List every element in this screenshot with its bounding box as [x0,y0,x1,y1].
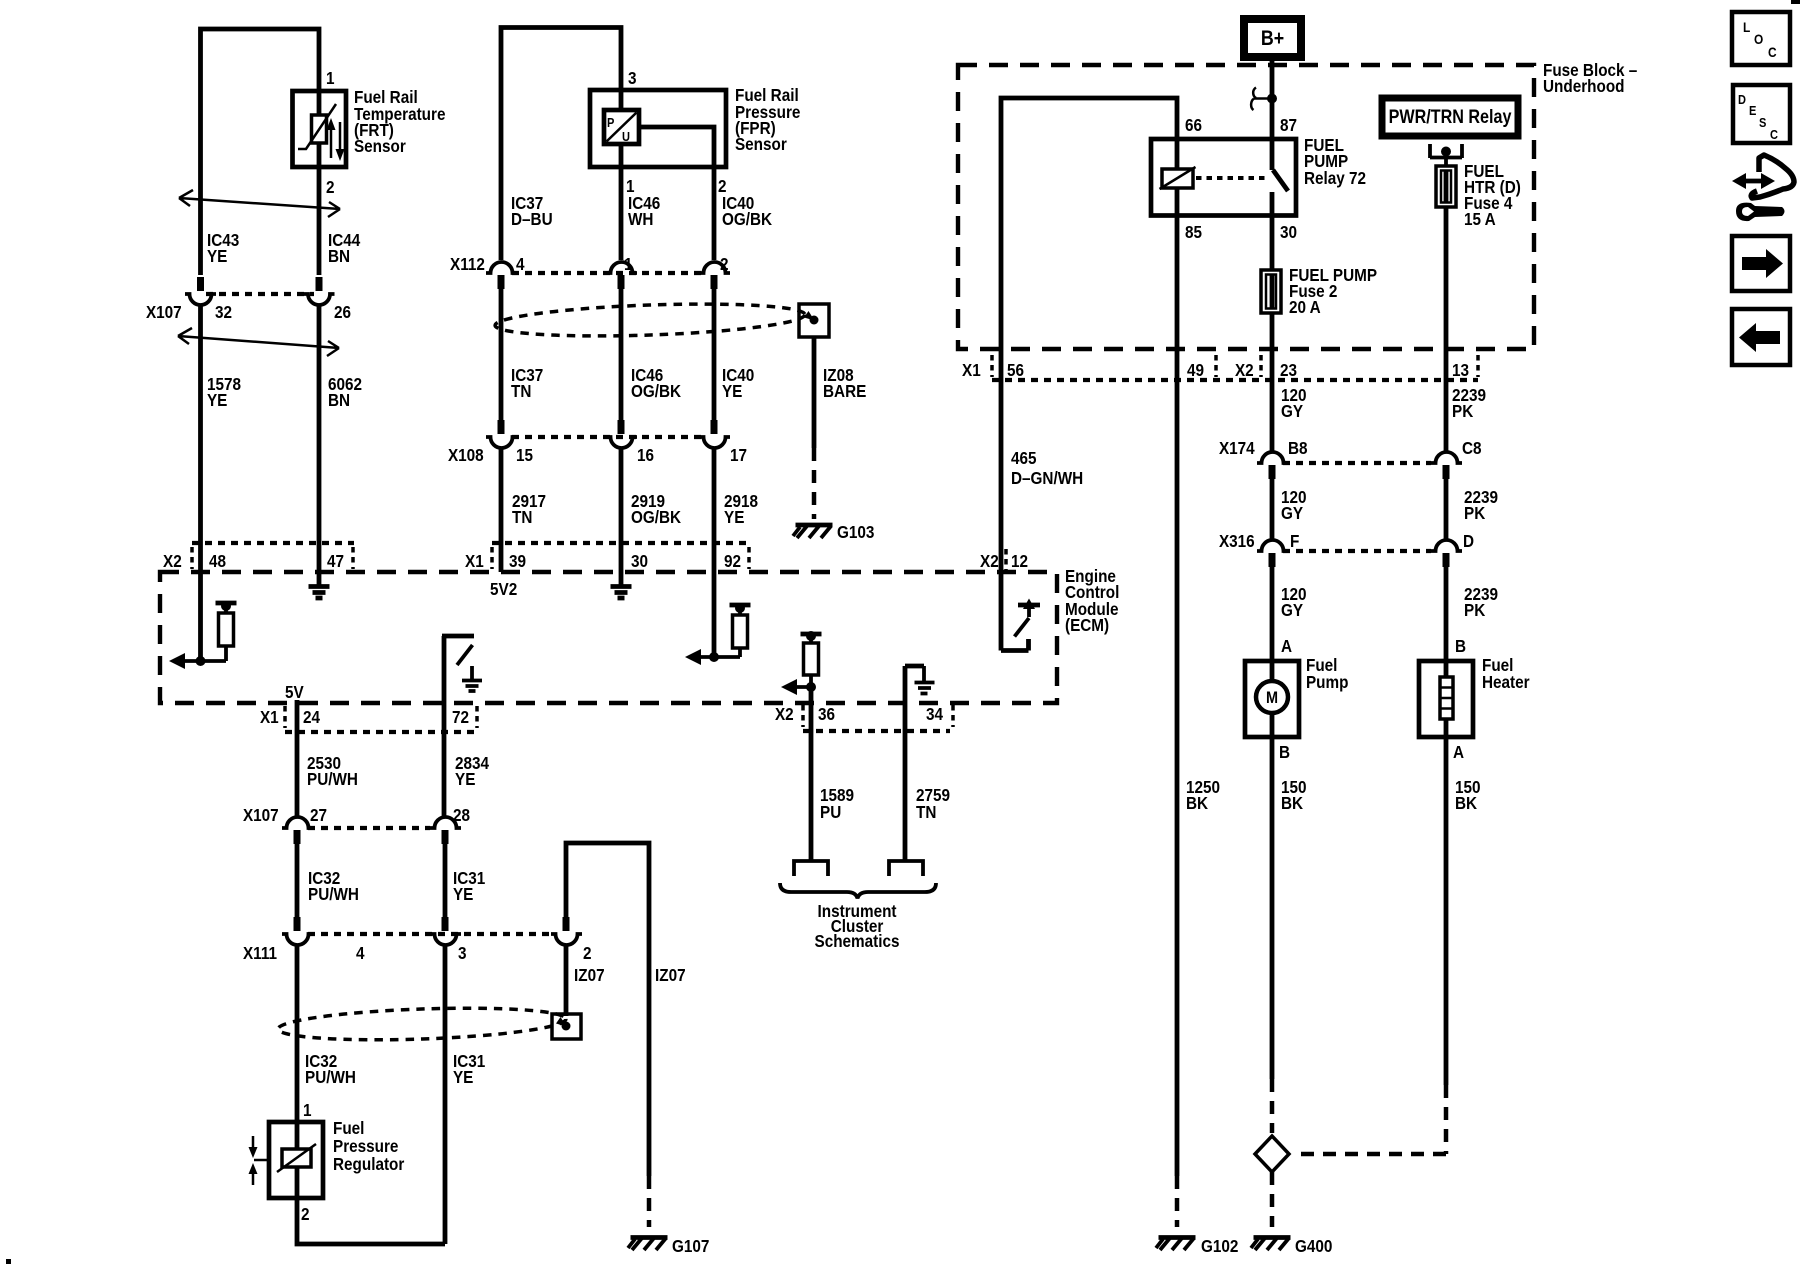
X108 connector dashed row [512,435,703,439]
twisted pair crossing arrows lower [178,328,339,356]
connector X108 pin 17 [711,420,718,434]
svg-text:34: 34 [926,704,944,724]
svg-text:D–BU: D–BU [511,209,553,229]
wire IC40 YE [712,289,717,420]
svg-text:X107: X107 [146,302,182,322]
svg-text:A: A [1453,742,1464,762]
svg-text:D: D [1463,531,1474,551]
svg-text:PK: PK [1452,401,1473,421]
splice diamond [1255,1136,1289,1172]
FRT pin 2 wire [317,143,322,275]
wire 1250 BK dashed to G102 [1175,1176,1180,1227]
svg-text:OG/BK: OG/BK [631,381,681,401]
svg-text:C8: C8 [1462,438,1482,458]
svg-text:B+: B+ [1261,27,1284,51]
wire 24 at ECM border [295,700,300,709]
FPR pin 1 wire [619,144,624,260]
ECM pull-up resistor circuit for wire 48 [216,601,237,606]
connector X108 pin 15 [498,420,505,434]
wire 92 inside ECM [712,572,717,657]
ECM pull-up resistor circuit for wire 36 [801,632,822,637]
svg-text:465: 465 [1011,448,1037,468]
svg-text:30: 30 [631,551,648,571]
X107 connector dashed row [206,292,314,296]
svg-text:Schematics: Schematics [815,931,900,951]
ECM dashed box [160,572,1057,703]
wire 2239 PK second [1444,479,1449,540]
wire from X111 pin 2 to splice [564,945,569,1016]
wire 120 GY third [1270,567,1275,661]
X316 connector dashed row [1283,549,1431,553]
splice box IZ08 [799,304,829,337]
svg-text:X2: X2 [775,704,794,724]
svg-text:2: 2 [720,254,729,274]
svg-text:1: 1 [326,68,335,88]
svg-text:Heater: Heater [1482,672,1530,692]
svg-text:5V2: 5V2 [490,579,517,599]
svg-text:BN: BN [328,246,350,266]
svg-text:X2: X2 [980,551,999,571]
wire fuse 4 to X2 13 [1444,207,1449,452]
fuel pump motor [1270,661,1275,737]
connector X107 pin 26 [316,277,323,291]
connector X112 pin 4 [486,262,517,273]
connector X112 pin 2 [699,262,730,273]
wire diamond to G400 [1270,1172,1275,1227]
connector X111 pin 3 [442,917,449,931]
svg-text:C: C [1768,44,1777,60]
svg-text:92: 92 [724,551,741,571]
wire regulator pin 2 bottom loop [297,1198,445,1244]
svg-text:X2: X2 [163,551,182,571]
fuel pump box [1245,661,1299,737]
svg-text:3: 3 [458,943,467,963]
svg-text:PU: PU [820,802,841,822]
svg-text:E: E [1749,103,1756,118]
svg-text:1: 1 [303,1100,312,1120]
svg-text:X1: X1 [260,707,279,727]
connector X107 pin 32 [197,277,204,291]
svg-text:28: 28 [453,805,470,825]
battery B+ terminal [1244,19,1301,57]
wire 2917 TN [499,448,504,572]
svg-text:PU/WH: PU/WH [305,1067,356,1087]
svg-text:D: D [1738,92,1746,107]
relay internal dashed link [1196,176,1266,180]
svg-text:85: 85 [1185,222,1202,242]
fuel pump relay 72 box [1151,139,1296,216]
up-down arrows inside FRT [330,129,333,158]
svg-text:GY: GY [1281,600,1303,620]
wire 34 ground inside ECM [905,666,924,709]
instrument cluster terminal left [794,861,828,876]
stray dot bottom left [6,1259,11,1264]
svg-text:BK: BK [1281,793,1303,813]
svg-text:X2: X2 [1235,360,1254,380]
svg-text:X1: X1 [962,360,981,380]
fuel heater box [1419,661,1473,737]
svg-text:X1: X1 [465,551,484,571]
svg-text:YE: YE [724,507,744,527]
wire IC46 OG/BK [619,289,624,420]
svg-text:15 A: 15 A [1464,209,1496,229]
wire 48 inside ECM [198,572,203,661]
svg-text:20 A: 20 A [1289,297,1321,317]
svg-text:BK: BK [1455,793,1477,813]
relay switch blade [1273,170,1288,191]
svg-text:G102: G102 [1201,1236,1238,1256]
svg-text:PK: PK [1464,503,1485,523]
svg-text:IZ07: IZ07 [655,965,686,985]
svg-text:TN: TN [512,507,532,527]
wire 1578 YE [198,305,203,572]
svg-text:49: 49 [1187,360,1204,380]
wire 6062 BN [317,305,322,572]
svg-text:P: P [607,115,614,130]
svg-text:TN: TN [916,802,936,822]
svg-text:48: 48 [209,551,226,571]
regulator opposing arrows symbol [253,1136,269,1185]
svg-text:G103: G103 [837,522,874,542]
svg-text:24: 24 [303,707,321,727]
wire 2918 YE [712,448,717,572]
svg-text:17: 17 [730,445,747,465]
splice box IZ07 [552,1014,581,1039]
ground inside ECM for wire 47 [317,572,322,585]
X111 connector dashed row [308,932,551,936]
wire 465 switch inside ECM [1001,572,1029,651]
PWR/TRN relay box [1382,98,1518,136]
wire IC31 YE upper [443,844,448,917]
svg-text:2: 2 [326,177,335,197]
wire top loop FRT sensor [201,29,320,275]
fuel pump fuse 2 [1261,270,1281,313]
wire relay 66 feed loop [1001,98,1177,572]
P/U transducer symbol [604,110,639,144]
svg-text:BARE: BARE [823,381,866,401]
svg-text:OG/BK: OG/BK [631,507,681,527]
svg-text:G107: G107 [672,1236,709,1256]
icon forward arrow box [1732,236,1790,291]
svg-text:Sensor: Sensor [735,134,787,154]
svg-text:26: 26 [334,302,351,322]
svg-text:Regulator: Regulator [333,1154,405,1174]
svg-text:BN: BN [328,390,350,410]
svg-text:23: 23 [1280,360,1297,380]
svg-text:OG/BK: OG/BK [722,209,772,229]
icon back arrow box [1732,309,1790,365]
fuel pressure regulator box [269,1122,323,1198]
IZ07 bend wire from X111 pin 2 [566,843,649,1176]
icon LOC box [1732,12,1790,65]
svg-text:YE: YE [455,769,475,789]
wire 2530 PU/WH [295,709,300,817]
svg-text:G400: G400 [1295,1236,1332,1256]
svg-text:YE: YE [207,246,227,266]
svg-text:X108: X108 [448,445,484,465]
ground G107 chassis [631,1235,668,1240]
twisted pair crossing arrows upper [179,190,340,217]
svg-text:27: 27 [310,805,327,825]
X174 connector dashed row [1283,461,1431,465]
svg-text:PK: PK [1464,600,1485,620]
svg-text:56: 56 [1007,360,1024,380]
svg-text:12: 12 [1011,551,1028,571]
svg-text:YE: YE [453,1067,473,1087]
wire IC37 TN [499,289,504,420]
svg-text:B: B [1279,742,1290,762]
svg-text:X111: X111 [243,943,277,963]
X107 lower connector dashed row [308,826,430,830]
svg-text:PU/WH: PU/WH [308,884,359,904]
wire 150 BK pump [1270,737,1275,1079]
wire 72 below ECM [442,702,447,817]
fuse block underhood dashed box [958,65,1534,349]
svg-text:B: B [1455,636,1466,656]
svg-text:30: 30 [1280,222,1297,242]
ground G102 chassis [1159,1235,1196,1240]
svg-text:16: 16 [637,445,654,465]
wire IZ08 BARE [812,337,817,448]
relay coil [1175,139,1180,216]
wire 2239 PK third [1444,567,1449,661]
svg-text:L: L [1743,19,1750,35]
svg-text:F: F [1290,531,1299,551]
connector X112 pin 1 [606,262,637,273]
svg-text:72: 72 [452,707,469,727]
svg-text:32: 32 [215,302,232,322]
svg-text:3: 3 [628,68,637,88]
ground G103 chassis [796,523,833,528]
svg-text:2: 2 [301,1204,310,1224]
ground inside ECM for wire 30 [619,572,624,585]
splice ellipse lower [278,1004,567,1044]
svg-text:GY: GY [1281,401,1303,421]
X112 connector dashed row [512,271,703,275]
connector X316 pin D [1431,540,1462,551]
svg-text:GY: GY [1281,503,1303,523]
wire 2759 TN [903,709,908,861]
svg-text:X112: X112 [450,254,485,274]
svg-text:PWR/TRN Relay: PWR/TRN Relay [1389,106,1512,128]
svg-text:O: O [1754,31,1763,47]
svg-text:IZ07: IZ07 [574,965,605,985]
svg-text:U: U [622,129,630,144]
instrument cluster terminal right [889,861,923,876]
wire fuse 2 to X2 23 [1270,313,1275,452]
svg-text:Pump: Pump [1306,672,1348,692]
wire 2919 OG/BK [619,448,624,572]
svg-text:2: 2 [583,943,592,963]
connector X316 pin F [1257,540,1288,551]
FPR pin 2 wire [639,127,714,260]
connector X107 pin 28 [430,817,461,828]
svg-text:Relay 72: Relay 72 [1304,168,1366,188]
wire 36 inside ECM [809,687,814,709]
svg-text:M: M [1266,689,1278,707]
svg-text:(ECM): (ECM) [1065,615,1109,635]
connector X111 pin 4 [294,917,301,931]
svg-text:D–GN/WH: D–GN/WH [1011,468,1083,488]
connector X108 pin 16 [618,420,625,434]
svg-text:WH: WH [628,209,653,229]
page corner mark [1791,0,1800,4]
fuel heater fuse 4 [1436,166,1456,207]
junction node with branch hook [1267,94,1277,104]
svg-text:TN: TN [511,381,531,401]
svg-text:47: 47 [327,551,344,571]
svg-text:66: 66 [1185,115,1202,135]
splice ellipse upper [495,300,806,341]
fuel rail temperature sensor FRT box [293,91,347,167]
svg-text:36: 36 [818,704,835,724]
ground G400 chassis [1254,1235,1291,1240]
svg-text:13: 13 [1452,360,1469,380]
wire top loop FPR sensor [501,28,621,261]
connector X174 pin B8 [1257,452,1288,463]
svg-text:Underhood: Underhood [1543,76,1625,96]
svg-text:X174: X174 [1219,438,1255,458]
svg-text:5V: 5V [285,682,304,702]
wire IC31 YE lower [443,945,448,1244]
wire IC32 PU/WH lower [295,945,300,1122]
svg-text:X107: X107 [243,805,279,825]
svg-text:87: 87 [1280,115,1297,135]
svg-text:Sensor: Sensor [354,136,406,156]
connector X174 pin C8 [1431,452,1462,463]
thermistor symbol inside FRT [317,91,322,115]
wire 150 BK heater [1444,737,1449,1085]
wire relay 85 to X1 49 [1175,216,1180,1177]
svg-text:B8: B8 [1288,438,1308,458]
svg-text:X316: X316 [1219,531,1255,551]
svg-text:PU/WH: PU/WH [307,769,358,789]
wire 120 GY second [1270,479,1275,540]
ECM switch to ground for wire 72 [442,636,474,702]
svg-text:YE: YE [722,381,742,401]
fuel heater element [1444,661,1449,737]
svg-text:A: A [1281,636,1292,656]
svg-text:BK: BK [1186,793,1208,813]
instrument cluster brace [780,883,936,899]
svg-text:YE: YE [453,884,473,904]
fuel rail pressure sensor FPR box [590,90,726,167]
PWR/TRN relay output fork [1430,144,1462,166]
ECM pull-up resistor circuit for wire 92 [730,603,751,608]
wire 1589 PU [809,709,814,861]
svg-text:4: 4 [356,943,365,963]
wire IC32 PU/WH upper [295,844,300,917]
svg-text:YE: YE [207,390,227,410]
wire B+ to relay 87 [1270,57,1275,170]
icon double arrow with wrench [1744,179,1763,184]
svg-text:C: C [1770,127,1778,142]
connector X107 pin 27 [282,817,313,828]
wire relay 30 down [1270,192,1275,270]
svg-text:S: S [1759,115,1766,130]
solenoid symbol inside regulator [295,1122,300,1149]
svg-text:39: 39 [509,551,526,571]
ECM connector row X1 39 30 92 [492,541,749,545]
icon DESC box [1733,85,1790,143]
connector X111 pin 2 [563,917,570,931]
svg-text:15: 15 [516,445,533,465]
ECM connector row X2 48 47 [192,541,354,545]
